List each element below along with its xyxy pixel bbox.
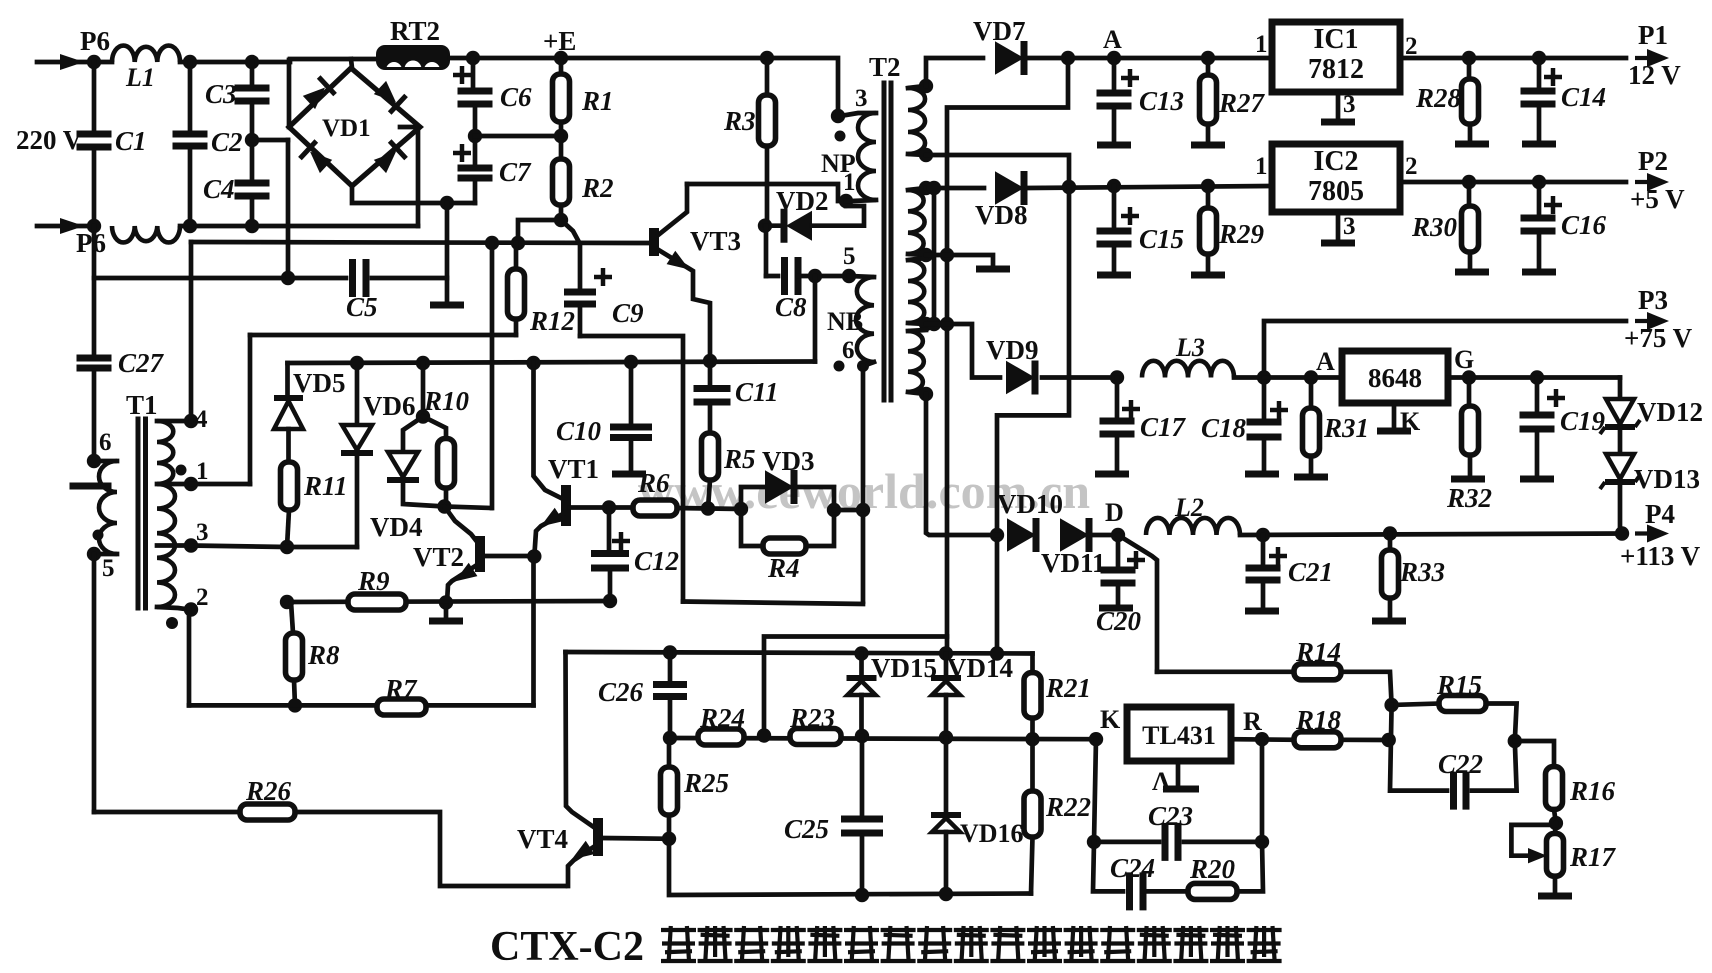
svg-text:C2: C2 — [211, 127, 243, 157]
svg-text:VD10: VD10 — [997, 489, 1063, 519]
resistor R9 — [348, 566, 406, 610]
svg-text:+E: +E — [543, 26, 576, 56]
wire — [667, 738, 672, 767]
IC2 pin3 ground — [1321, 212, 1356, 243]
node — [466, 51, 480, 65]
svg-text:R17: R17 — [1569, 842, 1617, 872]
capacitor C9 — [561, 220, 644, 336]
transformer T2 winding NB — [827, 276, 874, 372]
node — [990, 646, 1004, 660]
wire T1 pin2 down — [187, 610, 192, 706]
node — [1255, 835, 1269, 849]
capacitor C15 — [1097, 179, 1185, 275]
resistor R24 — [698, 703, 745, 745]
wire vertical from base line — [490, 243, 495, 508]
svg-text:R: R — [1243, 707, 1262, 736]
IC1 pin3 ground — [1321, 91, 1356, 122]
capacitor C24 — [1093, 842, 1188, 911]
svg-text:C12: C12 — [634, 546, 679, 576]
wire — [180, 224, 418, 229]
svg-text:NP: NP — [821, 149, 856, 178]
capacitor C7 — [453, 136, 532, 203]
node — [280, 540, 294, 554]
wire — [518, 220, 561, 243]
svg-text:VD2: VD2 — [776, 186, 829, 216]
svg-text:VD8: VD8 — [975, 200, 1028, 230]
resistor R29 — [1191, 186, 1265, 275]
svg-text:VD12: VD12 — [1637, 397, 1703, 427]
svg-text:C23: C23 — [1148, 801, 1193, 831]
node — [280, 595, 294, 609]
wire — [1026, 56, 1272, 61]
transistor VT1 — [534, 454, 630, 556]
svg-text:C22: C22 — [1438, 749, 1483, 779]
node — [281, 271, 295, 285]
capacitor C17 — [1095, 378, 1187, 475]
svg-text:2: 2 — [196, 584, 209, 611]
svg-text:R31: R31 — [1323, 413, 1369, 443]
transformer T1 left winding — [73, 429, 117, 582]
svg-text:L2: L2 — [1174, 493, 1204, 522]
svg-text:CTX-C2: CTX-C2 — [490, 924, 644, 970]
svg-text:R22: R22 — [1045, 792, 1091, 822]
svg-text:2: 2 — [1405, 153, 1418, 180]
resistor R28 — [1415, 58, 1489, 144]
svg-text:+5 V: +5 V — [1630, 184, 1685, 214]
diode VD5 — [274, 368, 346, 429]
node — [703, 354, 717, 368]
zener diode VD13 — [1600, 454, 1700, 533]
resistor R20 — [1188, 842, 1263, 900]
transistor VT4 — [517, 652, 669, 886]
wire — [252, 138, 288, 143]
svg-text:R25: R25 — [683, 768, 729, 798]
node — [939, 730, 953, 744]
svg-text:T1: T1 — [126, 390, 158, 420]
node — [1382, 733, 1396, 747]
junction — [87, 55, 101, 69]
node — [183, 55, 197, 69]
svg-text:T2: T2 — [869, 52, 901, 82]
svg-text:R18: R18 — [1295, 705, 1342, 735]
diode VD7 — [973, 16, 1026, 75]
svg-text:R11: R11 — [303, 471, 348, 501]
svg-text:3: 3 — [1343, 213, 1356, 240]
svg-text:C13: C13 — [1139, 86, 1184, 116]
resistor R25 — [661, 767, 730, 839]
svg-text:C11: C11 — [735, 377, 779, 407]
node — [1383, 526, 1397, 540]
wire P3 riser — [1264, 321, 1626, 378]
resistor R6 — [633, 468, 677, 516]
node — [1304, 370, 1318, 384]
wire jog — [947, 58, 1068, 654]
node — [1549, 816, 1563, 830]
svg-text:VD14: VD14 — [947, 653, 1013, 683]
svg-text:VD4: VD4 — [370, 512, 423, 542]
svg-text:220 V: 220 V — [16, 125, 83, 155]
svg-text:5: 5 — [843, 243, 856, 270]
zener diode VD15 — [847, 653, 938, 736]
wire W2 to VD8 — [926, 186, 984, 191]
zener diode VD12 — [1600, 378, 1703, 454]
svg-text:VD5: VD5 — [293, 368, 346, 398]
wire tap W1b — [926, 155, 1069, 186]
svg-text:3: 3 — [196, 519, 209, 546]
node R — [1243, 707, 1269, 746]
resistor R4 — [741, 509, 834, 583]
8648 pin K ground — [1377, 403, 1421, 436]
wire W1 to VD7 — [926, 58, 983, 86]
wire T1 pin5 down — [92, 554, 97, 812]
resistor R18 — [1294, 705, 1389, 748]
svg-text:VD13: VD13 — [1634, 464, 1700, 494]
transformer T2 secondary W3 — [908, 258, 933, 331]
resistor R30 — [1411, 182, 1489, 272]
wire — [1231, 737, 1294, 742]
wire — [1264, 375, 1342, 380]
node — [855, 888, 869, 902]
resistor R16 — [1546, 767, 1616, 824]
node — [183, 219, 197, 233]
diode VD9 — [986, 335, 1039, 395]
node — [245, 219, 259, 233]
svg-text:VD15: VD15 — [871, 653, 937, 683]
wire — [286, 140, 291, 278]
node — [245, 55, 259, 69]
transformer T1 right winding lower — [157, 484, 209, 629]
wire W3 to VD9 — [926, 324, 1000, 378]
node — [839, 194, 853, 208]
svg-text:7805: 7805 — [1308, 176, 1364, 207]
node D — [1105, 498, 1125, 542]
svg-text:VD6: VD6 — [363, 391, 416, 421]
svg-text:C8: C8 — [775, 292, 807, 322]
svg-text:K: K — [1100, 705, 1121, 734]
node — [939, 646, 953, 660]
wire — [580, 336, 683, 602]
TL431 anode — [1152, 761, 1199, 796]
transformer T2 core — [869, 52, 901, 400]
wire — [1240, 534, 1626, 536]
svg-text:C9: C9 — [612, 298, 644, 328]
svg-text:VD1: VD1 — [322, 115, 371, 142]
wire — [1515, 741, 1554, 767]
connector P3 arrow — [1624, 285, 1693, 353]
resistor R22 — [1024, 739, 1091, 893]
node — [757, 728, 771, 742]
resistor R26 — [94, 776, 565, 886]
svg-text:R9: R9 — [357, 566, 390, 596]
zener diode VD16 — [931, 738, 1024, 895]
capacitor C22 — [1438, 741, 1517, 810]
transformer T2 secondary W1 — [908, 79, 933, 162]
node — [439, 595, 453, 609]
node — [1508, 734, 1522, 748]
connector P6 bottom arrow — [37, 218, 106, 258]
svg-text:D: D — [1105, 498, 1124, 527]
watermark — [638, 463, 1090, 519]
capacitor C27 — [77, 226, 165, 461]
inductor L3 — [1142, 333, 1264, 378]
svg-text:C20: C20 — [1096, 606, 1142, 636]
node — [1110, 370, 1124, 384]
svg-text:P1: P1 — [1638, 20, 1668, 50]
capacitor C6 — [453, 58, 532, 136]
capacitor C23 — [1094, 739, 1262, 861]
ground — [430, 302, 464, 309]
wire K7 line — [189, 703, 534, 708]
svg-text:4: 4 — [195, 406, 208, 433]
transformer T1 core — [126, 390, 158, 608]
node — [624, 355, 638, 369]
node — [856, 503, 870, 517]
node — [527, 549, 541, 563]
svg-text:RT2: RT2 — [390, 16, 440, 46]
svg-text:R21: R21 — [1045, 673, 1091, 703]
capacitor C19 — [1520, 378, 1606, 480]
node — [1087, 835, 1101, 849]
diode VD2 — [765, 186, 864, 243]
wire — [534, 363, 562, 498]
svg-text:R28: R28 — [1415, 83, 1462, 113]
wire rail — [683, 602, 863, 605]
svg-text:R15: R15 — [1436, 670, 1482, 700]
svg-text:C21: C21 — [1288, 557, 1333, 587]
svg-text:C18: C18 — [1201, 413, 1247, 443]
transformer T1 right winding upper — [157, 406, 209, 491]
node — [603, 594, 617, 608]
resistor R33 — [1372, 534, 1445, 622]
node — [1025, 732, 1039, 746]
node — [350, 356, 364, 370]
svg-text:C24: C24 — [1110, 853, 1155, 883]
wire rail — [566, 652, 1033, 654]
svg-text:C1: C1 — [115, 126, 147, 156]
wire NP pin1 — [846, 200, 876, 201]
wire W2 bottom to ground — [926, 255, 993, 266]
diode VD11 — [1041, 518, 1106, 578]
svg-text:R3: R3 — [723, 106, 756, 136]
wire — [1390, 705, 1447, 791]
resistor R10 — [423, 386, 470, 507]
resistor R27 — [1191, 58, 1266, 145]
node — [1384, 698, 1398, 712]
ground — [429, 603, 463, 622]
node — [734, 502, 748, 516]
wire — [669, 839, 1031, 895]
node — [1462, 175, 1476, 189]
diode VD10 — [997, 489, 1063, 552]
capacitor C12 — [591, 508, 679, 602]
svg-text:C27: C27 — [118, 348, 165, 378]
capacitor C16 — [1521, 182, 1607, 272]
capacitor C4 — [203, 174, 270, 226]
node +E — [543, 26, 576, 65]
resistor R15 — [1392, 670, 1517, 741]
wire — [450, 56, 561, 61]
wire — [351, 59, 352, 68]
svg-text:R2: R2 — [581, 173, 614, 203]
wire rail — [287, 601, 610, 602]
inductor L2 — [1146, 493, 1240, 535]
capacitor C26 — [598, 653, 687, 739]
svg-text:R29: R29 — [1218, 219, 1265, 249]
svg-text:C14: C14 — [1561, 82, 1606, 112]
svg-text:VD16: VD16 — [960, 819, 1024, 848]
capacitor C10 — [556, 362, 652, 474]
svg-text:R5: R5 — [723, 444, 756, 474]
svg-text:6: 6 — [99, 429, 112, 456]
wire NB pin6 down — [861, 366, 866, 602]
node — [440, 196, 454, 210]
node — [939, 887, 953, 901]
node — [662, 832, 676, 846]
IC TL431 — [1127, 707, 1231, 761]
node — [990, 528, 1004, 542]
node — [663, 731, 677, 745]
svg-text:C16: C16 — [1561, 210, 1607, 240]
node — [602, 500, 616, 514]
resistor R21 — [1024, 673, 1091, 740]
connector P1 arrow — [1628, 20, 1681, 90]
node — [554, 213, 568, 227]
svg-text:+75 V: +75 V — [1624, 323, 1693, 353]
node — [1615, 526, 1629, 540]
wire T1 pin1 — [191, 482, 250, 487]
svg-text:R30: R30 — [1411, 212, 1458, 242]
node — [1462, 51, 1476, 65]
resistor R11 — [281, 429, 348, 547]
svg-text:1: 1 — [196, 458, 209, 485]
svg-text:VT1: VT1 — [548, 454, 599, 484]
wire NP pin3 to +E — [767, 58, 838, 116]
svg-text:A: A — [1316, 347, 1335, 376]
wire jumper — [764, 637, 947, 736]
node — [1061, 51, 1075, 65]
wire — [445, 203, 450, 303]
node K — [1089, 705, 1121, 746]
svg-text:R26: R26 — [245, 776, 292, 806]
connector P6 top arrow — [37, 26, 110, 70]
resistor R7 — [377, 674, 426, 715]
node — [760, 51, 774, 65]
wire — [475, 134, 561, 139]
svg-text:A: A — [1103, 25, 1122, 54]
wire line B — [288, 362, 816, 364]
resistor R23 — [789, 703, 841, 745]
resistor R3 — [723, 58, 776, 225]
transistor VT3 — [654, 184, 741, 361]
wire — [1042, 375, 1114, 380]
wire — [285, 363, 290, 396]
wire — [1400, 180, 1626, 185]
svg-text:VD9: VD9 — [986, 335, 1039, 365]
capacitor C8 — [765, 226, 849, 322]
wire VD8 node down — [997, 187, 1069, 654]
svg-text:R12: R12 — [529, 306, 575, 336]
capacitor C14 — [1521, 58, 1607, 144]
svg-text:L3: L3 — [1175, 333, 1205, 362]
wire T1 pin4 up — [189, 242, 194, 421]
wire — [677, 508, 741, 509]
svg-text:R24: R24 — [699, 703, 745, 733]
capacitor C25 — [784, 736, 883, 895]
node — [808, 269, 822, 283]
ground — [976, 266, 1010, 273]
wire — [1400, 56, 1626, 61]
svg-text:P6: P6 — [80, 26, 110, 56]
svg-text:+113 V: +113 V — [1620, 541, 1701, 571]
bridge rectifier VD1 — [289, 60, 420, 186]
capacitor C2 — [173, 62, 243, 226]
resistor R5 — [702, 405, 756, 509]
diode VD8 — [975, 171, 1028, 230]
resistor R2 — [553, 136, 614, 220]
transformer T2 winding NP — [821, 85, 876, 200]
node — [554, 129, 568, 143]
node — [827, 503, 841, 517]
caption text — [490, 924, 1282, 970]
svg-text:C4: C4 — [203, 174, 235, 204]
svg-text:R7: R7 — [384, 674, 418, 704]
resistor R1 — [553, 58, 614, 136]
wire D to R14 riser — [1118, 535, 1157, 672]
diode VD4 — [370, 417, 445, 543]
wire — [250, 333, 516, 338]
svg-text:6: 6 — [842, 337, 855, 364]
node — [511, 236, 525, 250]
node — [526, 356, 540, 370]
svg-text:C3: C3 — [205, 79, 237, 109]
svg-text:3: 3 — [855, 85, 868, 112]
svg-text:C25: C25 — [784, 814, 829, 844]
capacitor C3 — [205, 62, 270, 179]
svg-text:R23: R23 — [789, 703, 835, 733]
diode VD3 — [741, 446, 834, 509]
svg-text:VD11: VD11 — [1041, 548, 1106, 578]
node — [1201, 179, 1215, 193]
svg-text:TL431: TL431 — [1142, 721, 1216, 750]
svg-text:VT2: VT2 — [413, 542, 464, 572]
resistor R12 — [508, 243, 576, 336]
capacitor C11 — [694, 361, 779, 407]
svg-text:Λ: Λ — [1152, 767, 1171, 796]
node — [1530, 370, 1544, 384]
capacitor C5 — [94, 259, 447, 322]
svg-text:C5: C5 — [346, 292, 378, 322]
node G — [1462, 370, 1476, 384]
wire — [180, 60, 290, 65]
wire — [400, 127, 418, 226]
transistor VT2 — [413, 507, 534, 603]
node — [416, 356, 430, 370]
resistor R32 — [1446, 378, 1492, 514]
wire — [421, 363, 426, 417]
wire — [1090, 533, 1114, 538]
IC IC2 7805 — [1255, 144, 1418, 212]
svg-text:8648: 8648 — [1368, 363, 1422, 393]
svg-text:P4: P4 — [1645, 499, 1675, 529]
node — [416, 409, 430, 423]
node — [854, 646, 868, 660]
svg-text:3: 3 — [1343, 91, 1356, 118]
potentiometer R17 — [1511, 823, 1616, 896]
node — [940, 248, 954, 262]
svg-text:L1: L1 — [125, 63, 155, 92]
wire — [813, 276, 818, 362]
zener diode VD14 — [931, 653, 1013, 738]
